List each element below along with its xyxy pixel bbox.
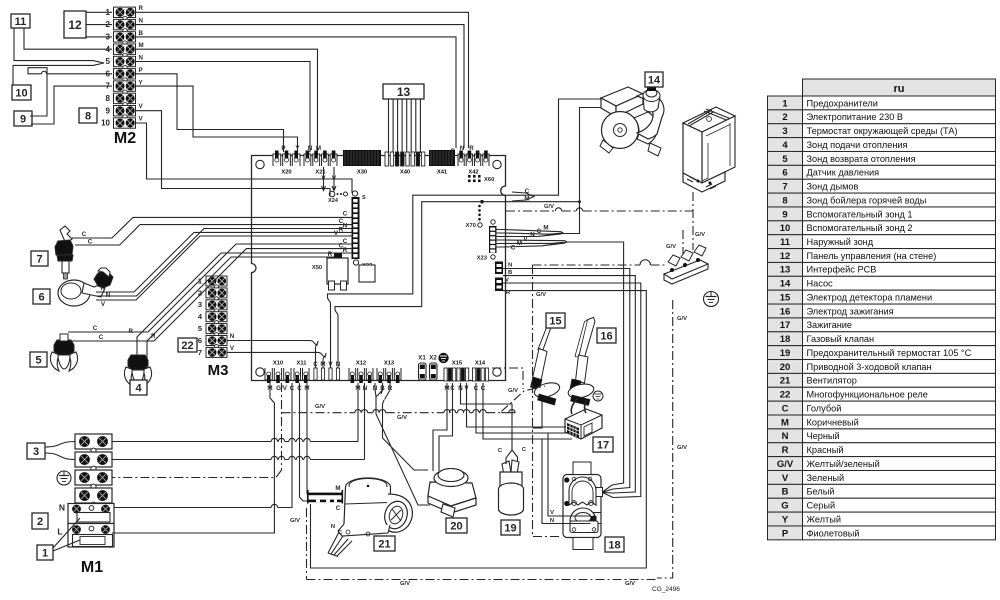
svg-text:Y: Y bbox=[782, 514, 789, 525]
svg-text:8: 8 bbox=[782, 195, 787, 206]
svg-text:5: 5 bbox=[106, 57, 111, 66]
svg-text:Зеленый: Зеленый bbox=[807, 473, 845, 483]
X11 aux pins C M V N bbox=[313, 361, 341, 380]
svg-text:X20: X20 bbox=[281, 170, 291, 176]
svg-text:14: 14 bbox=[780, 279, 791, 290]
svg-text:7: 7 bbox=[198, 348, 202, 357]
svg-text:N: N bbox=[139, 55, 144, 62]
wire M2 pin6 P to X20 bbox=[136, 74, 284, 152]
svg-text:7: 7 bbox=[782, 182, 787, 193]
svg-text:N: N bbox=[530, 232, 535, 239]
svg-text:Вентилятор: Вентилятор bbox=[807, 376, 857, 386]
box 2 bbox=[32, 513, 48, 529]
svg-text:X14: X14 bbox=[475, 361, 486, 367]
connector X40 bbox=[385, 152, 425, 176]
terminal strip M3 bbox=[198, 276, 227, 357]
svg-text:5: 5 bbox=[198, 324, 202, 333]
merge arrow pump wires bbox=[512, 192, 534, 201]
svg-text:C: C bbox=[93, 325, 98, 332]
svg-text:X70: X70 bbox=[466, 223, 476, 229]
ignition electrode 16 bbox=[567, 317, 603, 405]
svg-text:6: 6 bbox=[782, 168, 787, 179]
wire box9 to pin6 bbox=[28, 68, 112, 116]
svg-text:1: 1 bbox=[782, 98, 788, 109]
wire box11 to pin5 upper bbox=[13, 28, 104, 85]
svg-text:R: R bbox=[328, 251, 333, 258]
svg-text:15: 15 bbox=[549, 315, 561, 327]
sensor 7 flue probe bbox=[55, 226, 73, 279]
svg-text:9: 9 bbox=[106, 106, 111, 115]
box 19 bbox=[501, 520, 520, 535]
box 1 bbox=[37, 545, 53, 560]
sensor 6 wires R N V bbox=[96, 229, 352, 301]
svg-text:N: N bbox=[106, 292, 111, 299]
svg-text:2: 2 bbox=[782, 112, 787, 123]
svg-text:N: N bbox=[139, 18, 144, 25]
svg-text:3: 3 bbox=[198, 300, 202, 309]
svg-text:6: 6 bbox=[198, 336, 202, 345]
svg-text:Зонд бойлера горячей воды: Зонд бойлера горячей воды bbox=[807, 195, 927, 205]
svg-text:G/V: G/V bbox=[400, 581, 410, 587]
svg-text:R: R bbox=[129, 328, 134, 335]
svg-text:21: 21 bbox=[378, 538, 390, 550]
svg-text:Зонд возврата отопления: Зонд возврата отопления bbox=[807, 154, 916, 164]
ic box bbox=[359, 265, 375, 282]
box3 loop wires bbox=[45, 442, 75, 460]
sensor 4 clip probe bbox=[124, 355, 151, 386]
svg-text:G/V: G/V bbox=[677, 316, 687, 322]
svg-text:10: 10 bbox=[15, 87, 27, 99]
svg-text:19: 19 bbox=[780, 348, 791, 359]
connector stubs right edge bbox=[495, 262, 503, 292]
svg-text:G/V: G/V bbox=[397, 415, 407, 421]
sensor 4 wires R R bbox=[137, 253, 352, 360]
X21 V V stubs bbox=[324, 167, 335, 190]
svg-text:G: G bbox=[781, 501, 788, 512]
svg-text:Черный: Черный bbox=[807, 431, 840, 441]
connector X15 bbox=[444, 361, 469, 382]
wire X10 G/V drop dashdot bbox=[112, 383, 282, 478]
svg-text:R: R bbox=[339, 227, 344, 234]
svg-text:C: C bbox=[537, 228, 542, 235]
box 3 bbox=[27, 443, 45, 459]
box 11 bbox=[11, 14, 30, 28]
X23 wires to merge points bbox=[496, 230, 563, 237]
wire N to valve right bbox=[503, 269, 630, 493]
svg-text:16: 16 bbox=[780, 306, 791, 317]
wire M2 pin3 B to X42 bbox=[136, 37, 456, 148]
connector X12 bbox=[349, 361, 373, 384]
svg-text:V: V bbox=[782, 473, 789, 484]
svg-text:Желтый/зеленый: Желтый/зеленый bbox=[807, 459, 880, 469]
svg-text:7: 7 bbox=[36, 253, 42, 265]
pcb earth symbol bbox=[438, 353, 448, 363]
svg-text:16: 16 bbox=[600, 330, 612, 342]
wire X13 N B R merge bbox=[375, 383, 390, 400]
box 20 bbox=[446, 518, 467, 533]
sensor 5 wires C C bbox=[68, 244, 352, 341]
box 8 bbox=[79, 108, 97, 123]
wire X10 C drop bbox=[114, 383, 292, 508]
svg-text:G/V: G/V bbox=[536, 292, 546, 298]
svg-text:Вспомогательный зонд 2: Вспомогательный зонд 2 bbox=[807, 223, 913, 233]
earth lug assembly bbox=[664, 245, 708, 284]
svg-text:14: 14 bbox=[648, 74, 661, 86]
G/V bus dashdot bbox=[282, 386, 546, 413]
svg-text:R: R bbox=[151, 333, 156, 340]
connector X42 bbox=[458, 151, 489, 176]
wire M2 pin4 M to X21 bbox=[136, 49, 318, 152]
wire X13 to valve 20 bbox=[376, 397, 430, 506]
G/V dashdot from lugs down bbox=[657, 300, 673, 578]
svg-text:Голубой: Голубой bbox=[807, 403, 842, 413]
svg-text:6: 6 bbox=[38, 291, 44, 303]
legend table bbox=[768, 79, 996, 540]
svg-text:ru: ru bbox=[894, 83, 905, 95]
ribbon wires box13 to X40 bbox=[389, 99, 421, 153]
svg-text:8: 8 bbox=[85, 110, 91, 122]
svg-text:Электропитание 230 В: Электропитание 230 В bbox=[807, 112, 904, 122]
svg-text:1: 1 bbox=[42, 547, 48, 559]
connector X70 bbox=[466, 200, 484, 229]
svg-text:N: N bbox=[363, 385, 368, 392]
fuse X1 bbox=[418, 355, 426, 381]
svg-text:5: 5 bbox=[782, 154, 788, 165]
svg-text:Фиолетовый: Фиолетовый bbox=[807, 528, 860, 538]
svg-text:G/V: G/V bbox=[544, 204, 554, 210]
wire to 19 from X15 bbox=[461, 383, 513, 450]
svg-text:M2: M2 bbox=[114, 130, 136, 147]
svg-text:G/V: G/V bbox=[290, 518, 300, 524]
overheat thermostat 19 bbox=[499, 460, 524, 515]
svg-text:Предохранители: Предохранители bbox=[807, 98, 878, 108]
svg-text:Насос: Насос bbox=[807, 279, 834, 289]
svg-text:Датчик давления: Датчик давления bbox=[807, 168, 880, 178]
fuse X2 bbox=[429, 355, 437, 381]
mounting bracket bbox=[683, 107, 735, 192]
valve 20 wires bbox=[433, 383, 453, 471]
svg-text:G/V: G/V bbox=[695, 232, 705, 238]
connector X13 bbox=[377, 361, 401, 384]
box 15 bbox=[546, 313, 565, 328]
relay X50 bbox=[312, 253, 348, 290]
wire electrode 16 to ignition 17 bbox=[571, 398, 586, 414]
svg-text:10: 10 bbox=[101, 119, 110, 128]
svg-text:11: 11 bbox=[15, 16, 27, 28]
connector X60 dots bbox=[468, 175, 494, 183]
svg-text:12: 12 bbox=[68, 18, 82, 32]
svg-text:20: 20 bbox=[450, 520, 462, 532]
svg-text:Предохранительный термостат 1: Предохранительный термостат 105 °C bbox=[807, 348, 972, 358]
connector X11 bbox=[294, 361, 309, 384]
svg-text:X50: X50 bbox=[312, 265, 322, 271]
box 12 bbox=[64, 11, 86, 38]
svg-text:Электрод зажигания: Электрод зажигания bbox=[807, 306, 894, 316]
svg-text:Термостат окружающей среды (ТА: Термостат окружающей среды (ТА) bbox=[807, 126, 958, 136]
bottom G/V dashdot bbox=[307, 579, 658, 581]
svg-text:M: M bbox=[543, 225, 548, 232]
svg-text:V: V bbox=[550, 510, 554, 516]
svg-text:Зонд дымов: Зонд дымов bbox=[807, 182, 859, 192]
wire B to valve right bbox=[503, 276, 635, 493]
box 14 bbox=[645, 72, 663, 87]
svg-text:X11: X11 bbox=[297, 361, 308, 367]
wire M to pump bbox=[335, 108, 603, 369]
svg-text:G/V: G/V bbox=[508, 388, 518, 394]
svg-text:12: 12 bbox=[780, 251, 791, 262]
svg-text:M: M bbox=[517, 240, 522, 247]
box 5 bbox=[30, 352, 47, 367]
svg-text:Приводной 3-ходовой клапан: Приводной 3-ходовой клапан bbox=[807, 362, 932, 372]
svg-text:X1: X1 bbox=[418, 355, 426, 362]
sensor 6 pressure transducer bbox=[58, 268, 113, 306]
M1 earth symbol bbox=[57, 471, 71, 485]
svg-text:8: 8 bbox=[106, 94, 111, 103]
M3 pin6 pin7 wires right bbox=[227, 341, 326, 358]
svg-text:13: 13 bbox=[780, 265, 791, 276]
svg-text:18: 18 bbox=[608, 539, 620, 551]
fan bottom fanned wires bbox=[328, 532, 352, 557]
svg-text:9: 9 bbox=[782, 209, 787, 220]
wire box12 to pins 1-3 bbox=[86, 12, 112, 37]
svg-text:Наружный зонд: Наружный зонд bbox=[807, 237, 874, 247]
svg-text:P: P bbox=[782, 528, 789, 539]
wire X10 M drop to M1 fuse bbox=[112, 383, 274, 533]
box1 leader lines bbox=[53, 518, 80, 551]
box 4 bbox=[130, 380, 147, 395]
gas valve 18 bbox=[563, 462, 603, 550]
fan feed terminal bars bbox=[308, 493, 342, 496]
svg-text:G/V: G/V bbox=[666, 244, 676, 250]
wire upper bundle to pump M junction bbox=[563, 202, 580, 234]
flame electrode 15 bbox=[531, 316, 562, 405]
svg-text:G/V: G/V bbox=[625, 581, 635, 587]
box 10 bbox=[12, 85, 31, 100]
svg-text:N: N bbox=[343, 223, 348, 230]
svg-text:C: C bbox=[343, 238, 348, 245]
svg-text:B: B bbox=[782, 487, 789, 498]
box 21 bbox=[374, 536, 395, 551]
wire X10 C2 drop to fan bbox=[300, 383, 309, 501]
terminal block M1 bbox=[68, 434, 114, 547]
svg-text:17: 17 bbox=[597, 439, 609, 451]
svg-text:N: N bbox=[550, 518, 554, 524]
svg-text:4: 4 bbox=[782, 140, 788, 151]
svg-text:18: 18 bbox=[780, 334, 791, 345]
svg-text:R: R bbox=[782, 445, 789, 456]
svg-text:X2: X2 bbox=[429, 355, 437, 362]
wire M2 pin7 Y to X20 bbox=[136, 86, 298, 152]
svg-text:3: 3 bbox=[33, 446, 39, 458]
box 13 bbox=[383, 84, 424, 99]
G/V dashdot burner ground bbox=[533, 264, 667, 266]
svg-text:C: C bbox=[88, 239, 93, 246]
wire R wrap-around bottom bbox=[311, 291, 647, 568]
wire box11 to pin4 bbox=[24, 28, 112, 49]
svg-text:19: 19 bbox=[504, 522, 516, 534]
svg-text:N: N bbox=[331, 524, 335, 530]
svg-text:B: B bbox=[139, 30, 144, 37]
svg-text:X15: X15 bbox=[452, 361, 463, 367]
svg-text:Панель управления (на стене): Панель управления (на стене) bbox=[807, 251, 937, 261]
wire X12 N drop to M1 bbox=[112, 383, 365, 460]
svg-text:4: 4 bbox=[135, 382, 142, 394]
connector X21 bbox=[304, 151, 337, 176]
svg-text:N: N bbox=[230, 333, 235, 340]
svg-text:X41: X41 bbox=[437, 170, 448, 176]
svg-text:M: M bbox=[335, 485, 340, 492]
svg-text:R: R bbox=[343, 247, 348, 254]
box 17 bbox=[593, 437, 613, 452]
svg-text:Электрод детектора пламени: Электрод детектора пламени bbox=[807, 292, 933, 302]
svg-text:X30: X30 bbox=[357, 170, 367, 176]
svg-text:M: M bbox=[781, 417, 789, 428]
pump 14 bbox=[600, 82, 664, 157]
box 18 bbox=[605, 537, 624, 552]
svg-text:P: P bbox=[139, 67, 143, 74]
3-way valve 20 bbox=[428, 469, 476, 518]
wire lower bundle to valve bbox=[567, 242, 624, 492]
svg-text:15: 15 bbox=[780, 292, 791, 303]
svg-text:13: 13 bbox=[397, 85, 411, 99]
svg-text:C: C bbox=[343, 211, 348, 218]
svg-text:Желтый: Желтый bbox=[807, 514, 841, 524]
connector X14 bbox=[473, 361, 489, 382]
wire electrode 15 lead bbox=[533, 401, 543, 428]
PCB mounting holes bbox=[256, 160, 264, 168]
svg-text:R: R bbox=[139, 5, 144, 12]
M2 wire labels bbox=[139, 5, 144, 123]
sensor 7 wires C C bbox=[72, 217, 352, 245]
gas valve wires V N bbox=[542, 433, 591, 524]
wire M2 pin9 V down bbox=[136, 111, 330, 196]
svg-text:G/V: G/V bbox=[777, 459, 794, 470]
connector X23 bbox=[477, 220, 497, 262]
svg-text:11: 11 bbox=[780, 237, 791, 248]
svg-text:M3: M3 bbox=[208, 362, 229, 379]
wire V to valve right bbox=[503, 283, 641, 498]
fan 21 bbox=[338, 478, 412, 536]
earth symbol right bbox=[704, 292, 719, 307]
svg-text:17: 17 bbox=[780, 320, 791, 331]
svg-text:X24: X24 bbox=[328, 198, 339, 204]
sensor 5 clip probe bbox=[50, 334, 77, 371]
svg-text:5: 5 bbox=[35, 354, 41, 366]
connector X22 bbox=[352, 191, 373, 269]
svg-text:G/V: G/V bbox=[677, 445, 687, 451]
X11 aux pin drops bbox=[316, 341, 327, 368]
ignition transformer 17 bbox=[565, 409, 602, 439]
wire M2 pin2 N to X42 bbox=[136, 25, 464, 148]
svg-text:Вспомогательный зонд 1: Вспомогательный зонд 1 bbox=[807, 209, 913, 219]
svg-text:X42: X42 bbox=[468, 170, 478, 176]
svg-text:3: 3 bbox=[782, 126, 787, 137]
svg-text:C: C bbox=[82, 231, 87, 238]
connector X30 bbox=[343, 150, 381, 176]
box 9 bbox=[14, 111, 32, 126]
svg-text:G/V: G/V bbox=[315, 404, 325, 410]
wire box9 to pin7 bbox=[31, 86, 112, 124]
svg-text:Белый: Белый bbox=[807, 487, 835, 497]
svg-text:X40: X40 bbox=[400, 170, 410, 176]
svg-text:C: C bbox=[336, 505, 341, 512]
svg-text:C: C bbox=[782, 403, 789, 414]
connector X24 bbox=[328, 191, 347, 204]
svg-text:Многофункциональное реле: Многофункциональное реле bbox=[807, 390, 928, 400]
svg-text:Зонд подачи отопления: Зонд подачи отопления bbox=[807, 140, 908, 150]
svg-text:X23: X23 bbox=[477, 256, 488, 262]
svg-text:X60: X60 bbox=[484, 177, 494, 183]
svg-text:X13: X13 bbox=[384, 361, 395, 367]
connector X20 bbox=[273, 151, 300, 176]
box 22 bbox=[178, 338, 197, 352]
svg-text:22: 22 bbox=[181, 340, 193, 352]
svg-text:M: M bbox=[139, 42, 144, 49]
G/V dashdot vertical to lugs bbox=[682, 230, 684, 258]
wires X15 to 17 bbox=[467, 383, 573, 439]
svg-text:L: L bbox=[57, 527, 62, 537]
G/V dashdot to bracket bbox=[506, 192, 693, 250]
svg-text:Зажигание: Зажигание bbox=[807, 320, 853, 330]
svg-text:X10: X10 bbox=[273, 361, 283, 367]
wire X10 M2 drop to fan bbox=[306, 383, 308, 494]
svg-text:Серый: Серый bbox=[807, 501, 836, 511]
box 6 bbox=[33, 289, 50, 304]
svg-text:S: S bbox=[362, 195, 366, 201]
svg-text:R: R bbox=[101, 285, 106, 292]
svg-text:Красный: Красный bbox=[807, 445, 844, 455]
connector X41 bbox=[429, 150, 455, 176]
svg-text:N: N bbox=[59, 503, 65, 513]
svg-text:C: C bbox=[511, 245, 516, 252]
terminal strip M2 bbox=[101, 7, 135, 128]
thermostat 19 wires C C bbox=[506, 450, 518, 464]
svg-text:22: 22 bbox=[780, 390, 791, 401]
wire M2 pin5 N to X21 bbox=[136, 62, 310, 153]
svg-text:2: 2 bbox=[37, 516, 43, 528]
wire X12 M drop to M1 bbox=[112, 383, 358, 442]
svg-text:20: 20 bbox=[780, 362, 791, 373]
box 7 bbox=[31, 251, 48, 266]
G/V from X14 dashdot bbox=[492, 368, 523, 389]
wire C to pump bbox=[328, 99, 602, 368]
connector X10 bbox=[265, 361, 291, 384]
box 16 bbox=[597, 328, 616, 343]
G/V dashdot fan left bbox=[306, 508, 308, 580]
svg-text:9: 9 bbox=[20, 113, 26, 125]
svg-text:N: N bbox=[782, 431, 789, 442]
svg-text:21: 21 bbox=[780, 376, 791, 387]
svg-text:Коричневый: Коричневый bbox=[807, 417, 859, 427]
svg-text:Газовый клапан: Газовый клапан bbox=[807, 334, 875, 344]
svg-text:CG_2496: CG_2496 bbox=[652, 586, 680, 593]
svg-text:10: 10 bbox=[780, 223, 791, 234]
svg-text:C: C bbox=[99, 334, 104, 341]
PCB board outline bbox=[252, 156, 506, 381]
wire M2 pin10 V down bbox=[136, 123, 352, 193]
svg-text:X12: X12 bbox=[356, 361, 366, 367]
svg-text:M1: M1 bbox=[81, 559, 103, 576]
svg-text:Интерфейс PCB: Интерфейс PCB bbox=[807, 265, 877, 275]
wire M2 pin1 R to X42 bbox=[136, 12, 469, 148]
svg-text:N: N bbox=[508, 263, 512, 269]
